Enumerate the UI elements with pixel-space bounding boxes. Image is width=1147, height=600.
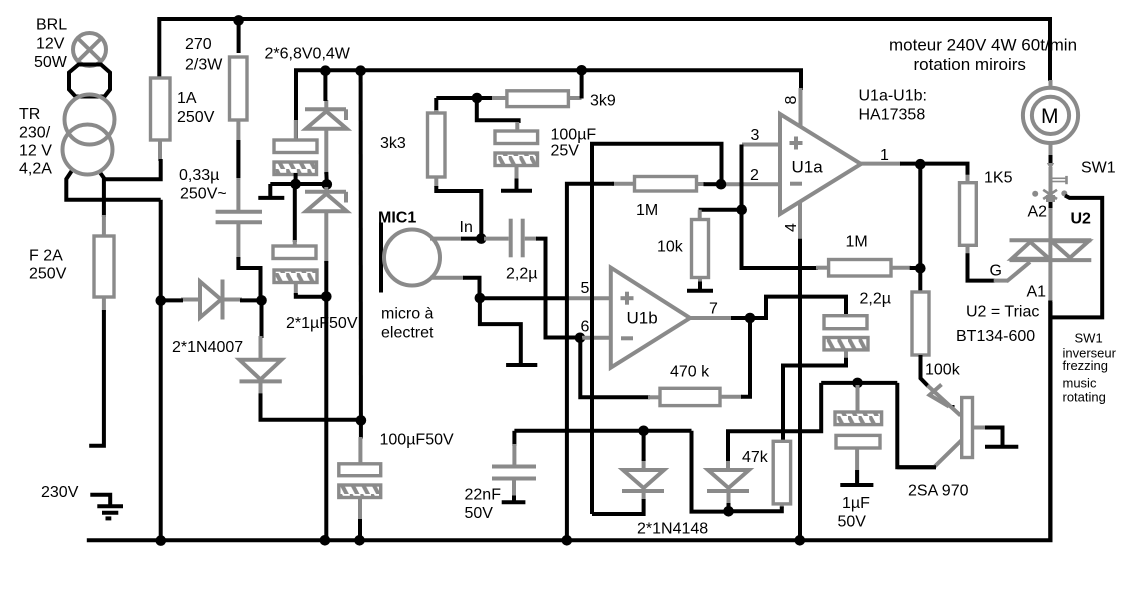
wire 470k to pin7 node [741,318,750,397]
transistor Q1 2SA970 base bar [962,398,973,458]
wire 1N4007 left lead [161,298,183,302]
wire cap2 bottom lead [294,283,298,296]
earth ground 230V [90,495,123,519]
wire 1uF ground stem [855,470,859,483]
capacitor 100uF 25V plus plate [495,131,538,144]
svg-text:10k: 10k [657,239,684,256]
transformer TR secondary [63,125,113,175]
svg-text:HA17358: HA17358 [859,107,926,124]
wire 3k3 bottom lead [434,177,438,187]
wire 22nF stub [512,431,516,446]
svg-text:1µF: 1µF [842,495,870,512]
wire pin5 black [480,296,569,300]
triac U2 bottom bar [1010,258,1092,262]
svg-text:2/3W: 2/3W [185,57,223,74]
node bottom rail pin4 [795,535,806,546]
svg-text:2,2µ: 2,2µ [860,291,891,308]
svg-text:In: In [460,219,473,236]
node 100uF50V top [356,415,367,426]
svg-text:A1: A1 [1027,284,1047,301]
svg-text:50W: 50W [34,54,68,71]
capacitor C 1uF upper plus plate [274,140,317,153]
wire 1M left to ground rail [567,184,614,541]
wire U1a output gray [859,162,901,166]
wire D2 bottom to 100uF50V node [261,393,361,438]
wire 10k bottom lead [698,278,702,284]
wire 2,2u right lead [525,237,537,241]
wiper arrow 100k [930,385,955,410]
wire pin4 to bottom rail [798,239,802,541]
svg-text:moteur 240V 4W 60t/min: moteur 240V 4W 60t/min [889,36,1077,55]
capacitor 2,2u out plus plate [824,316,867,329]
capacitor 100uF50V minus plate [339,485,381,498]
wire cap2 top gray [293,240,297,247]
svg-text:100µF50V: 100µF50V [380,432,454,449]
svg-text:12 V: 12 V [19,143,52,160]
wire transformer right stub [100,173,104,218]
wire clamp corner to diode node [692,431,729,512]
svg-text:470 k: 470 k [670,364,710,381]
wire triac center vertical [1048,240,1052,302]
fuse F1 1A 250V [151,78,171,140]
wire pin7 to 2,2u cap [750,297,846,318]
wire 10k ground stem [698,282,702,290]
wire supply rail 24V [296,70,801,139]
svg-text:2*1N4007: 2*1N4007 [172,339,243,356]
ground bar 100uF25V [501,189,532,193]
node top rail / 270 [233,15,244,26]
wire mic In black [461,237,481,241]
svg-text:230/: 230/ [19,125,51,142]
node pin3 10k [736,204,747,215]
wire pin3 gray lead [742,143,781,147]
resistor 270 2/3W [230,57,248,120]
svg-text:12V: 12V [36,36,65,53]
node D1-D2 1N4007 [256,295,267,306]
wire U1a pin2 node rail [592,144,722,514]
wire 270 bottom lead to 0,33u [236,120,240,211]
wire 0,33u bottom lead [236,222,240,259]
capacitor 2,2u coupling plates [511,219,523,258]
wire U1a pin8 stub [799,88,803,127]
capacitor C 1uF lower plus plate [273,246,316,259]
microphone MIC1 [379,223,383,293]
switch SW1 pole line [1049,167,1053,241]
ground bar 10k [687,289,713,293]
wire 1uF top lead [856,385,860,413]
node pin7 [745,313,756,324]
svg-text:2*1N4148: 2*1N4148 [637,521,708,538]
capacitor 100uF50V plus plate [339,464,381,476]
capacitor 2,2u out minus plate [824,338,868,350]
wire 3k3 to mic In node [436,186,481,239]
node 3k3 3k9 [472,93,483,104]
wire 1K5 top lead [966,175,970,184]
wire 100uF25V top lead [515,122,519,132]
wire D4 top from emitter node [728,383,821,461]
wire 100uF50V column [359,70,363,420]
svg-text:SW1: SW1 [1075,331,1103,346]
wire node98 [436,96,492,100]
wire 3k9 left lead [490,96,508,100]
svg-text:BRL: BRL [36,17,67,34]
wire mic ground path [480,298,521,364]
node bottom rail 100uF50V [354,535,365,546]
svg-text:BT134-600: BT134-600 [956,328,1035,345]
capacitor C 1uF lower minus plate [274,270,317,283]
svg-text:230V: 230V [41,484,79,501]
svg-text:47k: 47k [742,449,769,466]
diode D2 1N4007 vertical [240,336,282,395]
svg-text:U1b: U1b [627,309,658,328]
transformer TR 230/12V primary [65,95,115,145]
node zener bottom [321,291,332,302]
wire pin5 gray lead [567,296,611,300]
wire node98 to 3k3 [434,98,438,112]
wire gate gray lead [994,279,1008,283]
svg-text:1K5: 1K5 [984,170,1013,187]
wire 1N4007 right lead [240,298,262,302]
wire U1a output black [900,162,920,166]
node mic In [476,233,487,244]
wire pin1 column to 100k [918,164,922,293]
wire 100k bottom lead [921,355,929,386]
wire 1M2 left lead [816,266,830,270]
wire 0,33u to 1N4007 node [238,257,260,300]
node D3 top [638,426,649,437]
zener ZD2 6,8V [305,187,347,263]
svg-text:3: 3 [751,127,760,144]
wire 3k9 to supply [580,70,584,98]
node zener mid left [290,179,301,190]
switch SW1 contact dot right [1061,190,1067,196]
wire triac A1 to bottom rail [1048,301,1052,541]
svg-text:2*1µF50V: 2*1µF50V [286,315,358,332]
triac U2 right triangle [1052,241,1089,257]
wire 22nF ground stem [512,496,516,502]
wire top rail 240V [159,19,1050,81]
svg-text:1A: 1A [177,90,197,107]
svg-text:U2 = Triac: U2 = Triac [966,304,1039,321]
node diode D4 bottom [723,506,734,517]
wire 270 column top [237,19,241,53]
node pin2 [716,179,727,190]
wire U1b output gray [688,316,732,320]
wire 3k3 top lead gray [434,110,438,114]
wire motor top lead [1049,80,1053,89]
resistor 1K5 [960,183,977,246]
U1a minus mark [790,182,802,186]
svg-text:electret: electret [381,325,434,342]
svg-text:2*6,8V0,4W: 2*6,8V0,4W [265,46,351,63]
wire motor bottom lead [1049,142,1053,157]
resistor 3k3 [428,113,446,177]
lamp BRL 12V 50W [73,33,106,66]
svg-text:250V: 250V [177,109,215,126]
wire 1uF upper bottom to node [294,173,298,184]
wire U1b output black [731,316,750,320]
wire cap2 top lead [293,184,297,242]
resistor 47k [773,441,790,504]
capacitor 1uF 50V plus plate [836,435,880,448]
wire pin2 gray lead [725,182,781,186]
node supply 3k9 [576,65,587,76]
wire 2,2u to pin6 [536,239,580,338]
switch SW1 black stub [1049,202,1053,208]
wire 100uF50V bottom lead [358,498,362,522]
wire 1uF bottom lead [855,448,859,482]
svg-text:7: 7 [709,301,718,318]
wire 22nF top lead [512,444,516,465]
wire 1M right lead [697,182,706,186]
node pin1 [915,159,926,170]
svg-text:A2: A2 [1028,204,1048,221]
ground bar 1uF [840,483,873,487]
wire F2A top lead [102,215,106,236]
resistor 100k [912,292,929,355]
wire mic In lead [430,237,462,241]
resistor 1M feedback U1a [635,177,697,192]
U1a plus mark [790,137,803,150]
svg-text:8: 8 [783,96,800,105]
svg-text:50V: 50V [465,505,494,522]
resistor 470k [660,388,720,405]
triac U2 top bar [1010,238,1092,242]
node 1N4007 left [156,295,167,306]
svg-text:100µF: 100µF [551,127,597,144]
ground bar mic [506,363,537,367]
wire 270 lead black part [236,140,240,178]
svg-text:2,2µ: 2,2µ [506,266,537,283]
svg-text:U2: U2 [1071,211,1092,228]
wire 1M left lead [612,182,636,186]
svg-text:2: 2 [750,167,759,184]
wire bottom rail [87,300,1051,540]
wire F2A to 230V terminal [89,310,104,446]
wire 22nF bottom lead [512,479,516,498]
wire 100uF50V top lead [358,437,362,464]
ground bar transistor [985,445,1018,449]
svg-text:U1a: U1a [792,158,824,177]
wire 1M right black [704,182,717,186]
diode D1 1N4007 [181,280,242,320]
ground bar 22nF [502,500,526,504]
wire gate diagonal [1007,262,1031,282]
wire pin3 column [742,145,818,269]
switch SW1 contact dot left [1032,191,1038,197]
wire emitter node to transistor [897,383,936,467]
wire mic bottom lead [430,276,464,280]
wire D3 bottom to pin2 rail [592,499,644,514]
wire 1M2 right black [910,266,916,270]
wire 2,2u out to 47k [783,358,846,442]
zener ZD1 6,8V [305,100,347,174]
wire zener2 bottom to rail [324,261,328,540]
svg-text:4: 4 [783,223,800,232]
wire zener mid node [270,182,327,186]
wire diode D3 top node rail [514,429,691,433]
U1b minus mark [621,336,633,340]
node supply 100uF50V column [355,65,366,76]
wire 1K5 bottom lead [966,245,970,254]
wire 100uF25V bottom lead [515,166,519,181]
tap bar [258,196,284,200]
svg-text:4,2A: 4,2A [19,161,52,178]
node pin6 [575,333,586,344]
wire 1uF upper top lead [294,120,298,141]
svg-text:3k9: 3k9 [590,93,616,110]
svg-text:TR: TR [19,106,40,123]
diode D4 1N4148 [707,459,749,504]
svg-text:F 2A: F 2A [29,248,63,265]
svg-text:micro à: micro à [381,306,434,323]
wire mic bottom to pin5 node [463,278,480,298]
svg-text:6: 6 [581,319,590,336]
wire 2SA970 emitter bottom [897,465,936,469]
svg-text:rotating: rotating [1063,390,1106,405]
node bottom rail 1M column [562,535,573,546]
wire 1K5 to gate [968,253,996,280]
wire pin1 to 1K5 [920,164,967,176]
wire tap stub [268,184,272,196]
node zener mid right [322,179,333,190]
lamp socket octagon [69,65,110,97]
capacitor C 1uF upper minus plate [274,162,317,175]
svg-text:250V: 250V [29,266,67,283]
wire emitter diagonal [934,440,962,467]
motor M [1023,88,1078,143]
svg-text:3k3: 3k3 [380,135,406,152]
wire cap2 bottom to zener node [296,293,327,297]
node supply zener column [320,65,331,76]
wire zener1 top lead [323,70,327,101]
switch SW1 actuator [1052,176,1067,184]
resistor 3k9 [507,91,569,107]
wire collector gray [973,426,987,430]
wire 47k bottom lead [780,504,784,508]
node mic ground pin5 [475,293,486,304]
wire 100uF50V to bottom rail [358,519,362,540]
node 1M2 100k [915,263,926,274]
capacitor 22nF plates [492,467,536,479]
svg-text:music: music [1063,376,1097,391]
wire node98 to 100uF 25V [477,98,519,123]
svg-text:5: 5 [581,280,590,297]
svg-text:rotation miroirs: rotation miroirs [914,55,1026,74]
svg-text:50V: 50V [838,514,867,531]
wire fuse to transformer tap [104,159,161,179]
wire 10k top lead [698,210,702,220]
node 1uF top [852,378,863,389]
wire pin6 gray lead [582,336,611,340]
wire 47k to diode node [729,507,782,512]
svg-text:22nF: 22nF [465,487,502,504]
svg-text:MIC1: MIC1 [378,210,416,227]
op-amp U1a [780,114,861,214]
wire node to D2 [260,300,264,338]
wire transformer left stub down to live column [66,170,160,200]
wire 1M2 right lead [891,266,911,270]
wire left live column down to bottom rail [159,200,163,541]
svg-text:1: 1 [880,147,889,164]
svg-text:100k: 100k [925,362,961,379]
svg-text:U1a-U1b:: U1a-U1b: [859,88,927,105]
wire 3k9 right lead [567,96,582,100]
wire SW1 alternate contact loop [1052,196,1102,318]
fuse F 2A 250V [94,236,114,297]
wire D4 bottom black [727,503,731,511]
svg-text:1M: 1M [846,234,868,251]
svg-text:frezzing: frezzing [1063,358,1109,373]
wire F2A bottom lead [102,297,106,312]
svg-text:1M: 1M [636,202,658,219]
svg-text:M: M [1041,105,1059,128]
wire pin6 to 470k [580,338,650,398]
wire wiper diagonal [928,386,961,416]
svg-text:270: 270 [185,36,212,53]
wire zener1 bottom black [324,172,329,184]
wire 470k right lead [720,395,742,399]
svg-text:25V: 25V [551,143,580,160]
wire 1A fuse lead [158,140,162,161]
wire motor to SW1 black [1049,155,1053,163]
svg-text:2SA 970: 2SA 970 [908,483,969,500]
svg-text:SW1: SW1 [1081,160,1116,177]
capacitor 1uF 50V minus plate [835,412,882,425]
wire 470k left lead [648,395,661,399]
capacitor 100uF 25V minus plate [495,153,538,166]
svg-text:G: G [990,263,1002,280]
svg-text:0,33µ: 0,33µ [179,167,219,184]
resistor 1M to output [829,260,891,277]
svg-text:250V~: 250V~ [180,186,227,203]
U1b plus mark [621,292,634,305]
capacitor 0,33u 250V~ [216,212,262,222]
op-amp U1b [611,268,690,368]
wire 2,2u out bottom lead [844,350,848,360]
wire 2,2u left lead [484,237,509,241]
triac U2 left triangle [1012,242,1050,259]
wire collector to ground [985,428,1003,446]
wire U1a pin4 stub [798,201,802,240]
wire emitter node horizontal [821,381,897,385]
microphone MIC1 body [384,230,440,286]
switch SW1 cross [1043,190,1057,199]
resistor 10k [692,220,709,278]
diode D3 1N4148 [622,459,664,500]
switch SW1 pivot blob [1046,195,1055,202]
wire 10k top [699,208,742,212]
node bottom rail zener column [320,535,331,546]
wire 100uF25V ground stem [515,179,519,190]
node bottom rail left column [156,535,167,546]
switch SW1 arrow [1047,163,1054,170]
wire D3 top lead [642,431,646,461]
